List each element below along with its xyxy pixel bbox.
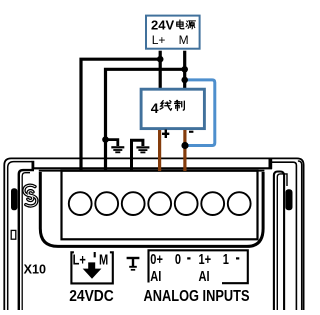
svg-text:24V: 24V — [151, 18, 174, 33]
wire - brown to terminal 5 — [183, 130, 186, 171]
wire M vertical into transducer — [183, 51, 186, 89]
terminal screw circle 7 — [228, 192, 251, 215]
label 24V电源 — [151, 18, 195, 33]
node - and blue loop junction — [181, 142, 188, 149]
right panel edge outer — [274, 172, 284, 311]
label 4线制 — [151, 100, 185, 116]
node ground branch junction — [102, 136, 109, 143]
left small clip outline — [11, 230, 16, 239]
terminal strip box — [62, 171, 258, 240]
svg-text:L+: L+ — [152, 33, 166, 47]
terminal screw circle 5 — [175, 192, 198, 215]
svg-text:0: 0 — [175, 250, 181, 267]
right panel edge inner — [277, 174, 287, 310]
svg-text:ANALOG INPUTS: ANALOG INPUTS — [144, 288, 250, 305]
svg-text:4: 4 — [151, 100, 159, 116]
svg-text:AI: AI — [199, 267, 210, 284]
wire terminal 3 to earth — [132, 140, 143, 171]
ground (earth) symbol 1 — [106, 140, 125, 153]
svg-text:M: M — [179, 33, 189, 47]
top step block right — [269, 158, 273, 169]
node L+ branch junction — [157, 56, 164, 63]
svg-text:1: 1 — [223, 250, 230, 267]
right DIN latch — [285, 189, 292, 210]
arrow into module — [83, 262, 102, 278]
functional earth symbol — [127, 258, 140, 270]
module outer second line right — [298, 161, 302, 310]
terminal screw circle 6 — [201, 192, 224, 215]
module lip right — [272, 162, 297, 310]
terminal screw circle 4 — [148, 192, 171, 215]
wire L+ branch to terminal 1 — [81, 59, 160, 171]
svg-text:L+: L+ — [73, 251, 86, 268]
spring clamp icon — [24, 185, 37, 206]
label + — [162, 130, 169, 139]
svg-text:1+: 1+ — [199, 250, 212, 267]
wire + brown to terminal 4 — [158, 130, 161, 171]
24V power supply box — [146, 16, 200, 49]
module outer outline — [4, 158, 303, 310]
left panel edge outer — [19, 170, 34, 310]
svg-text:24VDC: 24VDC — [69, 288, 114, 305]
left DIN latch — [11, 188, 17, 210]
node M to blue loop junction — [181, 77, 188, 84]
wire M branch to terminal 2 — [106, 69, 185, 171]
4-wire transducer box 4线制 — [141, 89, 204, 128]
module top edge line B — [32, 167, 272, 169]
analog inputs group bracket — [149, 250, 248, 283]
left panel edge inner — [22, 173, 30, 310]
terminal screw circle 3 — [122, 192, 145, 215]
svg-text:X10: X10 — [24, 262, 46, 276]
terminal screw circle 2 — [95, 192, 118, 215]
module outer second line left — [8, 162, 32, 310]
ground (earth) symbol 2 — [136, 147, 149, 152]
wire L+ vertical into transducer — [159, 51, 162, 89]
top step block left — [32, 161, 35, 170]
24VDC terminal group box — [71, 252, 112, 283]
terminal screw circle 1 — [69, 192, 92, 215]
svg-text:AI: AI — [150, 267, 161, 284]
svg-text:0+: 0+ — [150, 250, 163, 267]
module top edge line C — [39, 170, 265, 172]
label - — [189, 131, 193, 133]
node M branch junction — [181, 66, 188, 73]
terminal recess walls and bottom — [40, 172, 263, 246]
svg-text:M: M — [99, 251, 108, 268]
wire blue sense loop — [186, 80, 215, 146]
